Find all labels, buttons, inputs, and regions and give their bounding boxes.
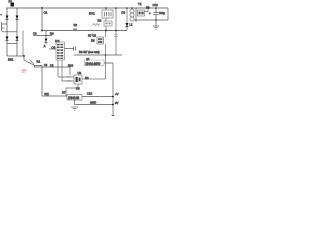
svg-text:R9 4k7 (see text): R9 4k7 (see text)	[79, 50, 100, 54]
diode D5	[44, 39, 48, 49]
ground right	[153, 20, 159, 29]
svg-text:R7 U2: R7 U2	[88, 34, 96, 38]
ground under D7	[71, 107, 78, 110]
wire branch x116	[115, 8, 117, 55]
svg-text:100µ: 100µ	[159, 11, 165, 15]
svg-text:R10: R10	[68, 64, 74, 68]
node A	[41, 7, 48, 14]
box T1b	[138, 10, 145, 16]
wire to rail x113	[104, 63, 113, 116]
IC U4 boxed label	[85, 60, 105, 66]
red mark	[22, 69, 27, 72]
capacitor C3 branch	[33, 31, 54, 39]
svg-text:R6: R6	[85, 76, 89, 80]
wire feedback y67	[35, 66, 71, 68]
svg-text:A: A	[44, 44, 46, 48]
wire node to opto top	[69, 67, 71, 75]
svg-text:C4: C4	[52, 46, 56, 50]
diode D1	[6, 16, 9, 20]
svg-text:C10: C10	[87, 92, 93, 96]
wire relay branch	[105, 8, 107, 31]
svg-text:C12: C12	[153, 3, 159, 7]
wire negative rail	[7, 55, 24, 57]
diode D3	[6, 37, 9, 41]
capacitor C5	[74, 47, 76, 51]
arrow annotation	[30, 60, 41, 65]
box U4	[91, 37, 104, 44]
capacitor C2 branch	[22, 31, 24, 57]
relay box U2	[89, 10, 113, 18]
diode D8	[122, 11, 129, 27]
svg-text:C5: C5	[50, 64, 54, 68]
wire bottom return	[75, 100, 114, 105]
svg-text:1N4148W: 1N4148W	[85, 62, 101, 66]
wire opto bottom	[66, 84, 78, 96]
node B	[23, 55, 25, 57]
optocoupler U3	[74, 71, 82, 84]
wire bridge right branch	[16, 8, 18, 56]
transformer T1 winding	[130, 8, 136, 22]
svg-text:T1: T1	[138, 2, 142, 6]
svg-text:R11: R11	[45, 93, 50, 96]
svg-text:GND: GND	[90, 101, 96, 105]
svg-text:BR1: BR1	[8, 58, 14, 62]
wire HV rail x42	[41, 8, 43, 31]
box U2b	[104, 21, 112, 26]
svg-text:R8: R8	[91, 39, 95, 43]
svg-text:R4: R4	[50, 32, 54, 36]
node I	[147, 7, 149, 9]
node D	[105, 30, 107, 32]
wire bridge bottom	[7, 43, 17, 45]
svg-text:L1: L1	[130, 23, 134, 27]
node E	[115, 30, 117, 32]
diode box D7	[62, 91, 82, 101]
diode D4	[16, 37, 19, 41]
rail bottom tick	[112, 115, 115, 117]
svg-text:U3: U3	[78, 71, 82, 75]
svg-text:R1: R1	[37, 60, 41, 64]
wire diagonal to node	[24, 56, 35, 66]
svg-text:C3: C3	[33, 32, 37, 36]
resistor R2 on mid bus	[73, 23, 78, 30]
IC U1	[55, 39, 65, 60]
svg-text:Q1: Q1	[86, 57, 90, 61]
svg-text:RY1: RY1	[89, 12, 95, 16]
AC input connector J1	[2, 22, 18, 32]
svg-text:+V: +V	[115, 92, 119, 96]
wire mid y55	[74, 54, 122, 56]
wire U4 down	[105, 31, 107, 80]
wire bridge left branch	[6, 8, 8, 56]
wire right edge	[167, 8, 169, 20]
wire secondary return	[134, 19, 168, 21]
svg-text:D8: D8	[122, 11, 126, 15]
wire IC right pin	[65, 48, 75, 50]
node K	[105, 7, 107, 9]
svg-text:R3: R3	[98, 19, 102, 23]
svg-text:1N4148: 1N4148	[68, 96, 79, 100]
fuse F1	[9, 0, 15, 7]
wire top bus	[6, 7, 168, 9]
node F	[105, 54, 107, 56]
svg-text:C1: C1	[44, 11, 48, 15]
svg-text:0V: 0V	[115, 101, 119, 105]
capacitor C12	[154, 8, 159, 20]
wire IC pins down	[57, 60, 59, 77]
capacitor C7	[114, 35, 118, 37]
svg-text:D6: D6	[76, 87, 80, 91]
wire left low rail	[35, 66, 68, 97]
node J	[155, 19, 157, 21]
svg-text:IC1: IC1	[55, 39, 60, 43]
resistor R3 squiggle	[93, 19, 102, 26]
svg-text:F1: F1	[9, 0, 13, 4]
node G	[112, 96, 114, 98]
diode D2	[16, 16, 19, 20]
node H	[112, 104, 114, 106]
node C	[41, 30, 43, 32]
wire D7 to rail	[82, 96, 113, 98]
wire into opto	[58, 77, 74, 81]
wire T1b up to bus	[145, 8, 149, 12]
svg-text:R2: R2	[74, 23, 78, 27]
wire opto out	[82, 76, 105, 80]
svg-text:D7: D7	[62, 91, 66, 95]
wire branch x127	[126, 8, 128, 31]
resistor R5 blobs	[67, 76, 72, 77]
wire mid bus y30.5	[42, 30, 127, 32]
wire into IC left	[49, 46, 56, 50]
